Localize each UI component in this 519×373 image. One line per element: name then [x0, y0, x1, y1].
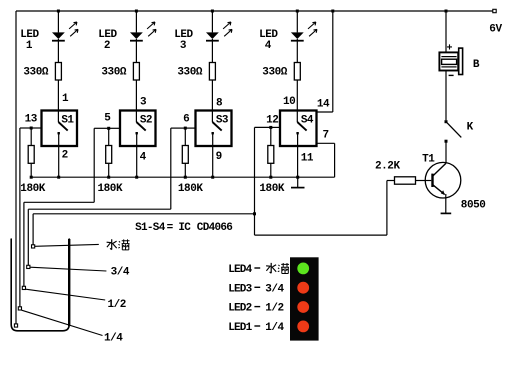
- svg-text:LED1: LED1: [228, 322, 252, 334]
- svg-text:8050: 8050: [461, 200, 486, 212]
- svg-text:10: 10: [283, 96, 295, 108]
- svg-text:1/4: 1/4: [104, 333, 123, 345]
- svg-text:B: B: [473, 59, 480, 71]
- svg-text:9: 9: [216, 151, 222, 163]
- svg-text:180K: 180K: [98, 183, 123, 195]
- svg-text:CD4066: CD4066: [197, 222, 233, 234]
- svg-text:11: 11: [301, 153, 314, 165]
- svg-text:T1: T1: [422, 154, 435, 166]
- svg-text:5: 5: [104, 113, 111, 125]
- svg-text:2: 2: [62, 150, 68, 162]
- svg-text:2.2K: 2.2K: [375, 161, 400, 173]
- svg-text:330Ω: 330Ω: [177, 66, 202, 78]
- svg-text:6V: 6V: [489, 24, 502, 36]
- svg-text:12: 12: [266, 115, 278, 127]
- svg-text:13: 13: [25, 114, 38, 126]
- svg-text:1/2: 1/2: [265, 303, 283, 315]
- svg-text:1/2: 1/2: [108, 299, 126, 311]
- svg-text:= IC: = IC: [167, 222, 192, 234]
- svg-text:+: +: [447, 44, 453, 55]
- svg-text:1: 1: [26, 40, 33, 52]
- svg-text:4: 4: [140, 152, 147, 164]
- svg-text:K: K: [467, 122, 474, 134]
- svg-text:7: 7: [323, 130, 329, 142]
- svg-text:4: 4: [265, 40, 272, 52]
- svg-text:180K: 180K: [20, 183, 45, 195]
- svg-text:S2: S2: [140, 114, 152, 126]
- svg-text:3/4: 3/4: [111, 267, 130, 279]
- svg-text:8: 8: [216, 98, 223, 110]
- svg-text:330Ω: 330Ω: [23, 66, 48, 78]
- svg-text:LED2: LED2: [228, 303, 251, 315]
- svg-text:3/4: 3/4: [265, 283, 284, 295]
- svg-text:S1: S1: [61, 114, 74, 126]
- svg-text:2: 2: [104, 40, 110, 52]
- svg-text:1/4: 1/4: [265, 322, 284, 334]
- svg-text:3: 3: [140, 97, 147, 109]
- svg-text:3: 3: [180, 40, 187, 52]
- svg-text:330Ω: 330Ω: [262, 66, 287, 78]
- svg-text:S3: S3: [216, 114, 229, 126]
- svg-text:180K: 180K: [178, 183, 203, 195]
- svg-text:14: 14: [317, 99, 330, 111]
- svg-text:S4: S4: [301, 114, 314, 126]
- svg-text:6: 6: [183, 114, 189, 126]
- svg-text:LED3: LED3: [228, 283, 252, 295]
- svg-text:1: 1: [62, 93, 69, 105]
- svg-text:LED4: LED4: [228, 264, 252, 276]
- svg-text:S1-S4: S1-S4: [135, 222, 166, 234]
- svg-text:180K: 180K: [259, 183, 284, 195]
- svg-text:330Ω: 330Ω: [101, 66, 126, 78]
